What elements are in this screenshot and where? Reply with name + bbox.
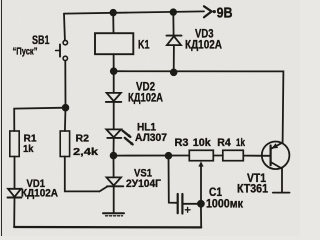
capacitor C1	[177, 194, 179, 213]
wire R4 to base	[243, 155, 270, 157]
node C1 branch	[166, 153, 172, 159]
svg-text:1000мк: 1000мк	[206, 199, 243, 211]
wire collector down	[281, 169, 283, 193]
wire VD1 to bottom rail	[13, 198, 15, 228]
wire C1 branch	[169, 156, 178, 203]
svg-text:2,4k: 2,4k	[73, 146, 98, 158]
node junction left	[63, 105, 69, 111]
node C1/R3 wiper	[198, 201, 204, 207]
wire R1 to VD1	[14, 157, 16, 189]
svg-text:K1: K1	[138, 37, 150, 51]
resistor R3	[189, 150, 213, 160]
wire HL1 to junction	[113, 138, 115, 156]
diode VD2	[107, 93, 121, 101]
node top rail / VD3	[171, 9, 177, 15]
svg-text:R4: R4	[217, 137, 231, 149]
wire junction to R3	[114, 155, 190, 157]
svg-text:1k: 1k	[23, 143, 34, 155]
svg-text:VD2: VD2	[136, 82, 155, 94]
node top rail / K1	[110, 10, 116, 16]
resistor R2	[60, 131, 69, 157]
svg-text:R2: R2	[76, 133, 90, 145]
svg-text:КТ361: КТ361	[237, 184, 269, 196]
svg-text:10k: 10k	[193, 137, 212, 149]
wire rail node to VD3	[172, 12, 174, 35]
node VD3 bottom	[171, 69, 177, 75]
svg-text:КД102А: КД102А	[128, 93, 163, 105]
diode VD3	[167, 35, 182, 37]
LED HL1	[106, 129, 121, 137]
svg-text:КД102А: КД102А	[185, 40, 222, 52]
wire node to emitter corner	[114, 71, 284, 142]
resistor R1	[10, 131, 19, 157]
wire SB1 to junction	[64, 61, 66, 108]
wire VD3 to node	[173, 45, 175, 72]
ground	[103, 212, 124, 214]
svg-text:АЛ307: АЛ307	[135, 132, 167, 144]
wire node to bottom rail	[200, 204, 202, 228]
relay K1	[95, 33, 133, 54]
plus dot of +9V	[213, 10, 216, 13]
svg-text:КД102А: КД102А	[21, 187, 58, 199]
wire C1 to node	[182, 203, 200, 205]
wire VD2 to HL1	[113, 102, 115, 129]
trimmer wiper of R3	[200, 165, 202, 204]
collector end bar	[273, 192, 290, 194]
wire VS1 anode up to junction	[113, 156, 115, 178]
wire rail to relay K1	[112, 13, 114, 33]
wire bottom rail	[14, 226, 201, 229]
wire K1 to node	[113, 54, 115, 71]
scan edge left border	[0, 0, 2, 236]
svg-text:2У104Г: 2У104Г	[126, 178, 162, 190]
wire VS1 cathode to ground	[113, 186, 115, 213]
switch SB1	[63, 40, 67, 44]
svg-text:“Пуск”: “Пуск”	[13, 47, 38, 58]
svg-text:SB1: SB1	[32, 35, 50, 47]
node HL1/VS1 junction	[111, 153, 117, 159]
svg-text:1k: 1k	[236, 137, 246, 149]
thyristor VS1	[100, 186, 108, 191]
wire R2 to VS1 gate	[65, 157, 100, 192]
transistor VT1	[262, 142, 290, 170]
node under K1	[111, 68, 117, 74]
svg-text:C1: C1	[209, 187, 223, 199]
wire junction to R1 branch	[14, 108, 65, 131]
arrowhead +9V	[204, 6, 212, 17]
wire R3 to R4	[213, 155, 223, 157]
svg-text:R3: R3	[175, 137, 189, 149]
resistor R4	[223, 150, 244, 160]
wire node to VD2	[113, 71, 115, 93]
wire top +9V rail	[64, 11, 204, 13]
svg-text:9В: 9В	[217, 5, 233, 21]
diode VD1	[8, 189, 21, 197]
wire from rail down to SB1	[63, 14, 66, 41]
wire junction to R2	[64, 108, 67, 131]
